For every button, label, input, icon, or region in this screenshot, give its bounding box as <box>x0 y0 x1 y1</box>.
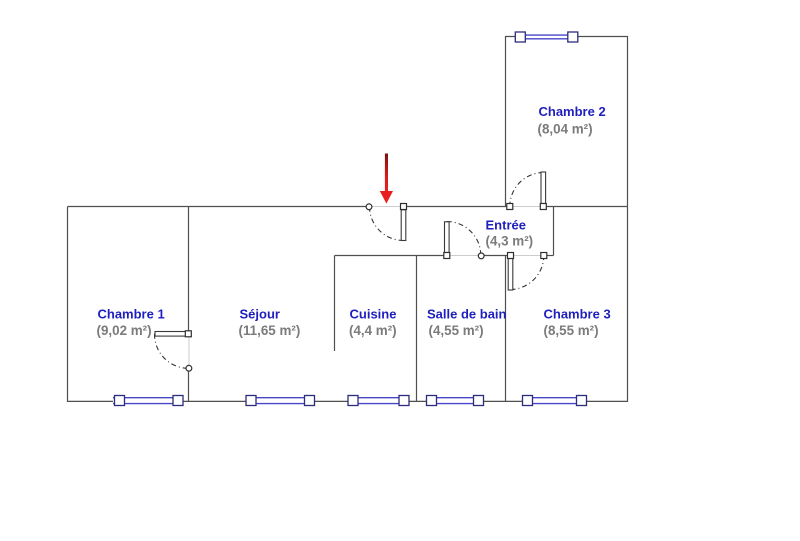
svg-text:Cuisine: Cuisine <box>350 307 397 322</box>
svg-text:Salle de bain: Salle de bain <box>427 307 507 322</box>
svg-text:(8,04 m²): (8,04 m²) <box>538 122 593 137</box>
svg-text:(4,3 m²): (4,3 m²) <box>486 234 534 249</box>
svg-text:Chambre 3: Chambre 3 <box>544 307 611 322</box>
svg-text:Chambre 1: Chambre 1 <box>98 307 165 322</box>
svg-text:(4,4 m²): (4,4 m²) <box>349 323 397 338</box>
svg-text:(9,02 m²): (9,02 m²) <box>97 323 152 338</box>
svg-text:Chambre 2: Chambre 2 <box>539 104 606 119</box>
svg-text:Entrée: Entrée <box>486 218 526 233</box>
svg-text:(8,55 m²): (8,55 m²) <box>544 323 599 338</box>
svg-text:(11,65 m²): (11,65 m²) <box>239 323 301 338</box>
svg-text:Séjour: Séjour <box>240 307 280 322</box>
svg-text:(4,55 m²): (4,55 m²) <box>429 323 484 338</box>
